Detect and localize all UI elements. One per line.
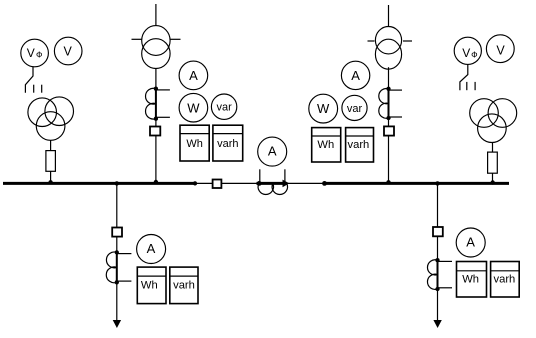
svg-text:Ф: Ф	[36, 50, 42, 60]
svg-text:var: var	[347, 103, 363, 115]
svg-text:varh: varh	[173, 279, 195, 291]
svg-text:V: V	[496, 43, 505, 57]
svg-text:Wh: Wh	[186, 138, 203, 150]
svg-text:varh: varh	[348, 139, 370, 151]
svg-text:W: W	[317, 101, 330, 116]
svg-text:Wh: Wh	[317, 139, 334, 151]
svg-text:A: A	[351, 68, 360, 83]
svg-text:Wh: Wh	[141, 279, 158, 291]
svg-text:A: A	[189, 68, 198, 83]
svg-text:var: var	[216, 102, 232, 114]
svg-text:varh: varh	[494, 274, 516, 286]
svg-text:V: V	[64, 44, 73, 58]
svg-text:Ф: Ф	[471, 49, 477, 59]
svg-text:A: A	[466, 235, 475, 250]
svg-text:W: W	[187, 100, 200, 115]
svg-text:A: A	[147, 241, 156, 256]
svg-text:Wh: Wh	[462, 274, 479, 286]
svg-text:V: V	[27, 46, 35, 60]
svg-text:A: A	[268, 144, 277, 159]
svg-text:varh: varh	[217, 138, 238, 150]
svg-text:V: V	[462, 46, 470, 60]
